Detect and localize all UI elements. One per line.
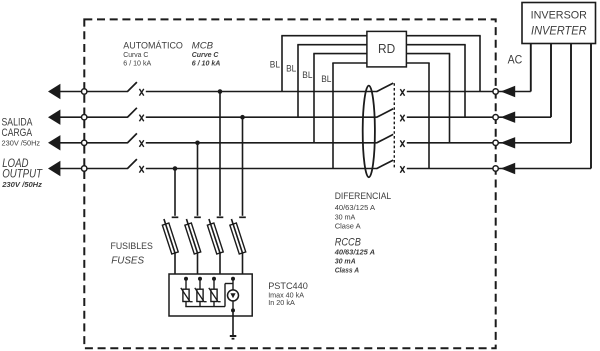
- wire row L1: terminal to MCB: [87, 91, 128, 93]
- SPD box PSTC440: [169, 274, 252, 316]
- arrow AC input L1: [501, 86, 516, 97]
- svg-text:FUSIBLES: FUSIBLES: [111, 241, 153, 252]
- RCCB switch blade L1: [376, 83, 393, 92]
- varistor RV2: [195, 279, 207, 307]
- terminal circle output L3: [82, 140, 87, 145]
- wire inverter AC drop L2: [550, 44, 552, 118]
- fuse F3: [206, 218, 224, 255]
- svg-text:In 20 kA: In 20 kA: [268, 298, 295, 307]
- wire BL sense loop 4 (row to RD): [332, 63, 367, 169]
- arrow AC input L3: [501, 137, 516, 148]
- RCCB contact x-mark N: [400, 166, 404, 173]
- wire fuse column 1 from row: [174, 169, 176, 216]
- RCCB switch blade N: [376, 160, 393, 169]
- terminal circle output L1: [82, 89, 87, 94]
- svg-text:INVERTER: INVERTER: [531, 25, 587, 37]
- wire row L3: AC terminal to inverter: [498, 142, 571, 144]
- svg-text:RD: RD: [378, 42, 395, 56]
- wire RD to AC side loop 1: [406, 36, 480, 92]
- gas discharge tube (circle with arrow): [228, 290, 239, 301]
- arrow load output L1: [48, 84, 60, 99]
- svg-text:Clase A: Clase A: [335, 222, 362, 231]
- svg-text:BL: BL: [302, 70, 312, 81]
- terminal circle AC L1: [493, 89, 498, 94]
- MCB contact x-mark L2: [139, 115, 143, 122]
- wire row N: MCB to RCCB: [146, 168, 377, 170]
- terminal circle output L2: [82, 115, 87, 120]
- wire inverter AC drop L1: [530, 44, 532, 92]
- MCB contact x-mark L3: [139, 140, 143, 147]
- wire inverter AC drop L3: [570, 44, 572, 143]
- wire bus riser to neutral: [225, 284, 233, 307]
- svg-text:BL: BL: [321, 74, 331, 85]
- arrow load output N: [48, 161, 60, 176]
- svg-text:30 mA: 30 mA: [335, 257, 356, 266]
- wire BL sense loop 3 (row to RD): [313, 54, 367, 143]
- svg-text:PSTC440: PSTC440: [268, 280, 308, 291]
- terminal circle AC N: [493, 166, 498, 171]
- inversor/inverter box: [522, 3, 596, 44]
- varistor common bus: [185, 306, 225, 308]
- wire row L2: RCCB to AC terminal: [407, 116, 493, 118]
- wire fuse column 4 from row: [242, 117, 244, 216]
- wire fuse 1 to SPD box: [174, 253, 176, 275]
- ground symbol: [230, 336, 237, 339]
- MCB switch blade L3: [127, 133, 137, 143]
- wire neutral drop to gas tube: [232, 279, 234, 290]
- fuse F2: [183, 218, 201, 255]
- varistor RV3: [209, 279, 221, 307]
- svg-text:40/63/125 A: 40/63/125 A: [335, 203, 376, 212]
- wire output row N: arrow to terminal: [60, 168, 82, 170]
- svg-text:INVERSOR: INVERSOR: [531, 10, 587, 22]
- SPD input junction dot 1: [184, 277, 188, 281]
- svg-text:6 / 10 kA: 6 / 10 kA: [123, 58, 152, 67]
- wire fuse column 3 from row: [219, 92, 221, 216]
- wire row N: AC terminal to inverter: [498, 168, 591, 170]
- svg-text:Class A: Class A: [335, 266, 359, 275]
- svg-text:CARGA: CARGA: [2, 127, 33, 139]
- wire RD to AC side loop 3: [406, 54, 450, 143]
- terminal circle AC L2: [493, 115, 498, 120]
- SPD earth junction dot: [231, 308, 235, 312]
- arrow AC input L2: [501, 112, 516, 123]
- wire row L3: terminal to MCB: [87, 142, 128, 144]
- arrow load output L2: [48, 110, 60, 125]
- fuse F1: [161, 218, 179, 255]
- wire BL sense loop 1 (row to RD): [281, 36, 367, 92]
- RCCB contact x-mark L3: [400, 140, 404, 147]
- varistor RV1: [181, 279, 193, 307]
- svg-text:6 / 10 kA: 6 / 10 kA: [192, 58, 221, 67]
- MCB switch blade N: [127, 159, 137, 169]
- fuse top contact cap 3: [217, 216, 224, 218]
- RCCB trip linkage (dashed): [393, 83, 395, 169]
- svg-text:AC: AC: [508, 53, 523, 67]
- wire row N: RCCB to AC terminal: [407, 168, 493, 170]
- enclosure dashed border: [84, 19, 495, 348]
- svg-text:DIFERENCIAL: DIFERENCIAL: [335, 191, 392, 202]
- wire row L1: MCB to RCCB: [146, 91, 377, 93]
- svg-text:30 mA: 30 mA: [335, 213, 356, 222]
- wire row L3: MCB to RCCB: [146, 142, 377, 144]
- wire row L3: RCCB to AC terminal: [407, 142, 493, 144]
- RCCB contact x-mark L1: [400, 89, 404, 96]
- fuse top contact cap 2: [194, 216, 201, 218]
- wire BL sense loop 2 (row to RD): [297, 45, 367, 118]
- svg-text:BL: BL: [286, 64, 296, 75]
- svg-text:230V /50Hz: 230V /50Hz: [1, 180, 42, 189]
- wire row L2: MCB to RCCB: [146, 116, 377, 118]
- wire gas tube to earth dot: [232, 301, 234, 311]
- MCB switch blade L2: [127, 108, 137, 118]
- wire row L2: terminal to MCB: [87, 116, 128, 118]
- junction dot row L3 to fuse column: [195, 141, 200, 146]
- wire output row L1: arrow to terminal: [60, 91, 82, 93]
- RCCB switch blade L3: [376, 134, 393, 143]
- wire fuse 2 to SPD box: [197, 253, 199, 275]
- wire inverter AC drop L4: [590, 44, 592, 169]
- wire fuse 3 to SPD box: [219, 253, 221, 275]
- RCCB contact x-mark L2: [400, 115, 404, 122]
- wire RD to AC side loop 4: [406, 63, 429, 169]
- wire row N: terminal to MCB: [87, 168, 128, 170]
- wire fuse 4 to SPD box: [242, 253, 244, 275]
- wire fuse column 2 from row: [197, 143, 199, 216]
- svg-text:RCCB: RCCB: [335, 236, 361, 248]
- svg-text:BL: BL: [270, 60, 280, 71]
- terminal circle output N: [82, 166, 87, 171]
- svg-text:40/63/125 A: 40/63/125 A: [334, 248, 375, 257]
- wire output row L3: arrow to terminal: [60, 142, 82, 144]
- SPD input junction dot 2: [198, 277, 202, 281]
- SPD input junction dot 4: [231, 277, 235, 281]
- junction dot row N to fuse column: [173, 166, 178, 171]
- wire row L1: AC terminal to inverter: [498, 91, 531, 93]
- MCB contact x-mark N: [139, 166, 143, 173]
- terminal circle AC L3: [493, 140, 498, 145]
- svg-text:230V /50Hz: 230V /50Hz: [2, 139, 41, 148]
- junction dot row L1 to fuse column: [218, 89, 223, 94]
- svg-text:OUTPUT: OUTPUT: [2, 169, 43, 181]
- SPD input junction dot 3: [212, 277, 216, 281]
- RCCB toroid sensing coil: [363, 86, 375, 178]
- MCB switch blade L1: [127, 82, 137, 92]
- fuse F4: [228, 218, 246, 255]
- MCB contact x-mark L1: [139, 89, 143, 96]
- arrow AC input N: [501, 163, 516, 174]
- relay box RD: [367, 31, 407, 67]
- wire output row L2: arrow to terminal: [60, 116, 82, 118]
- arrow load output L3: [48, 135, 60, 150]
- RCCB switch blade L2: [376, 109, 393, 118]
- junction dot row L2 to fuse column: [240, 115, 245, 120]
- wire row L2: AC terminal to inverter: [498, 116, 551, 118]
- fuse top contact cap 4: [239, 216, 246, 218]
- fuse top contact cap 1: [172, 216, 179, 218]
- wire row L1: RCCB to AC terminal: [407, 91, 493, 93]
- wire SPD to ground: [232, 310, 234, 335]
- svg-text:FUSES: FUSES: [111, 254, 144, 266]
- wire RD to AC side loop 2: [406, 45, 465, 118]
